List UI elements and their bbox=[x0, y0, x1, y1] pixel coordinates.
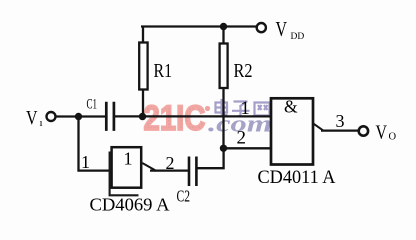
svg-text:R1: R1 bbox=[154, 60, 173, 82]
terminal VDD bbox=[257, 23, 266, 32]
negation slash U1 bbox=[142, 163, 156, 171]
watermark pink dot bbox=[205, 106, 210, 111]
label Vo bbox=[376, 122, 397, 144]
wire top rail bbox=[141, 25, 257, 27]
label VDD bbox=[276, 17, 305, 42]
svg-text:O: O bbox=[389, 132, 397, 143]
svg-text:C1: C1 bbox=[87, 97, 98, 113]
svg-text:1: 1 bbox=[81, 152, 90, 172]
svg-text:DD: DD bbox=[291, 32, 305, 42]
junction node at VDD rail and R2 bbox=[220, 23, 227, 30]
svg-text:CD4011 A: CD4011 A bbox=[258, 167, 336, 188]
watermark char zi bbox=[232, 102, 250, 117]
wire R2 top riser bbox=[222, 27, 224, 45]
capacitor C2 bbox=[189, 157, 196, 187]
wire node A down to inverter input bbox=[79, 117, 112, 171]
wire R1 bottom bbox=[142, 90, 144, 117]
svg-text:CD4069 A: CD4069 A bbox=[90, 195, 170, 215]
wire C2 right to node D bbox=[198, 149, 224, 169]
svg-text:1: 1 bbox=[241, 99, 250, 119]
svg-text:R2: R2 bbox=[234, 60, 253, 82]
watermark char wang bbox=[255, 103, 270, 116]
negation slash U2 bbox=[313, 123, 324, 131]
svg-text:&: & bbox=[284, 97, 298, 117]
wire NAND output to Vo bbox=[321, 129, 358, 131]
wire R1 top riser bbox=[142, 27, 144, 44]
wire R2 bottom crossing to node D bbox=[222, 88, 224, 149]
junction node D bbox=[220, 145, 227, 152]
wire Vi to C1 bbox=[56, 115, 106, 117]
resistor R1 bbox=[139, 43, 147, 90]
svg-text:V: V bbox=[376, 122, 388, 144]
terminal Vo bbox=[359, 126, 368, 135]
svg-text:ı: ı bbox=[40, 117, 43, 129]
resistor R2 bbox=[220, 44, 228, 89]
svg-text:1: 1 bbox=[124, 149, 133, 169]
inverter U1 CD4069 box bbox=[112, 147, 142, 188]
wire C1 to node B and NAND pin1 bbox=[115, 115, 272, 117]
svg-text:21IC: 21IC bbox=[144, 98, 206, 138]
wire inverter output to C2 bbox=[150, 169, 188, 171]
svg-text:C2: C2 bbox=[177, 187, 191, 206]
junction node A bbox=[75, 113, 82, 120]
svg-text:2: 2 bbox=[237, 128, 247, 149]
capacitor C1 bbox=[106, 102, 114, 131]
label Vi bbox=[26, 107, 43, 129]
terminal Vi bbox=[47, 112, 56, 121]
nand gate U2 CD4011 box bbox=[271, 98, 313, 164]
svg-text:3: 3 bbox=[336, 111, 345, 131]
svg-text:2: 2 bbox=[166, 153, 175, 173]
junction node B bbox=[139, 113, 146, 120]
wire node D to NAND pin2 bbox=[224, 147, 272, 149]
svg-text:V: V bbox=[26, 107, 38, 129]
svg-text:V: V bbox=[276, 17, 288, 41]
inverter U1 ghost double-print bbox=[110, 152, 139, 196]
watermark char dian bbox=[216, 99, 228, 115]
